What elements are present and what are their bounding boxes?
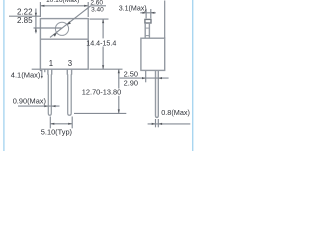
svg-text:0.90(Max): 0.90(Max) <box>13 96 46 105</box>
side body outline <box>141 38 165 70</box>
arrow diag upper <box>67 21 71 25</box>
svg-text:3: 3 <box>68 59 72 68</box>
svg-text:5.10(Typ): 5.10(Typ) <box>41 127 72 136</box>
hole diameter diagonal leader <box>50 6 91 38</box>
arrow 2.85 up <box>35 28 37 32</box>
12.70-13.80 dim line upper <box>118 69 120 88</box>
front body outline <box>40 19 88 70</box>
0.90(Max) dim line <box>18 105 60 107</box>
side lead with U tip <box>156 70 159 117</box>
svg-text:2.90: 2.90 <box>124 78 138 87</box>
lead tip ext line <box>74 112 126 114</box>
arrow 14.4 up <box>102 19 104 23</box>
5.10 ext line lead3 <box>71 117 73 129</box>
arrow 5.10 right <box>68 123 72 125</box>
2.22/2.85 dim vertical line <box>35 9 37 34</box>
table border right (blue) <box>192 0 193 151</box>
arrow 5.10 left <box>51 123 55 125</box>
3.1(Max) dim line <box>140 12 156 14</box>
lead 3 shoulder <box>67 69 71 74</box>
arrow 3.1 right <box>151 12 155 14</box>
side tab cap <box>145 19 151 23</box>
2.60/3.40 fraction bar <box>90 5 106 7</box>
svg-text:3.1(Max): 3.1(Max) <box>119 5 147 13</box>
12.70-13.80 dim line lower <box>118 96 120 113</box>
arrow diag lower <box>53 33 57 37</box>
arrow 4.1 leader <box>41 76 43 79</box>
hole centerline <box>34 27 62 29</box>
svg-text:3.40: 3.40 <box>91 7 104 14</box>
lead 1 narrow with V tip <box>48 74 51 115</box>
2.22/2.85 fraction bar <box>9 15 40 17</box>
arrow 14.4 down <box>102 65 104 69</box>
2.50/2.90 ext line <box>145 71 147 82</box>
5.10 ext line lead1 <box>49 117 51 129</box>
arrow 2.22 down <box>35 13 37 17</box>
svg-text:1: 1 <box>49 59 53 68</box>
arrow 2.50 left <box>158 77 162 79</box>
arrow top-dim right <box>84 5 88 7</box>
svg-text:2.50: 2.50 <box>124 70 138 79</box>
3.1(Max) ext lines <box>145 9 147 18</box>
svg-text:2.85: 2.85 <box>17 16 33 25</box>
0.8(Max) dim line <box>148 123 191 125</box>
side tab rung 1 <box>145 27 150 29</box>
5.10 dim line <box>50 123 72 125</box>
arrow 12.70 down <box>118 109 120 113</box>
4.1(Max) body-bottom ext line <box>32 68 41 70</box>
top width dim ext line right <box>87 2 89 17</box>
svg-text:12.70-13.80: 12.70-13.80 <box>82 88 121 97</box>
lead 1 shoulder <box>48 69 52 74</box>
mounting hole circle <box>55 22 68 35</box>
table border left (blue) <box>3 0 4 151</box>
top width dim line <box>41 5 88 7</box>
side right ext line <box>164 1 166 39</box>
svg-text:0.8(Max): 0.8(Max) <box>161 108 190 117</box>
svg-text:2.60: 2.60 <box>90 0 103 6</box>
top width dim ext line left <box>39 2 41 17</box>
4.1(Max) leader elbow <box>40 71 42 77</box>
arrow 0.8 left <box>152 123 156 125</box>
arrow 0.90 left <box>44 105 48 107</box>
svg-text:14.4-15.4: 14.4-15.4 <box>86 39 116 47</box>
arrow 0.8 right <box>159 123 163 125</box>
svg-text:10.16(Max): 10.16(Max) <box>46 0 79 4</box>
14.4-15.4 dim line upper <box>102 19 104 38</box>
arrow 12.70 up <box>118 69 120 73</box>
front body divider line <box>40 38 88 40</box>
2.50/2.90 dim line <box>120 77 169 79</box>
body bottom ext line right <box>90 68 123 70</box>
arrow 0.90 right <box>52 105 56 107</box>
svg-text:4.1(Max): 4.1(Max) <box>11 70 41 79</box>
arrow 3.1 left <box>143 12 147 14</box>
14.4-15.4 dim line lower <box>102 47 104 70</box>
lead 3 narrow with V tip <box>68 74 72 115</box>
side tab columns <box>144 23 146 38</box>
14.4-15.4 top ext line <box>90 18 109 20</box>
4.1(Max) tick <box>44 69 46 72</box>
0.8(Max) tip stubs <box>155 119 157 127</box>
side tab rung 2 <box>145 35 150 37</box>
arrow 2.50 right <box>142 77 146 79</box>
arrow top-dim left <box>41 5 45 7</box>
